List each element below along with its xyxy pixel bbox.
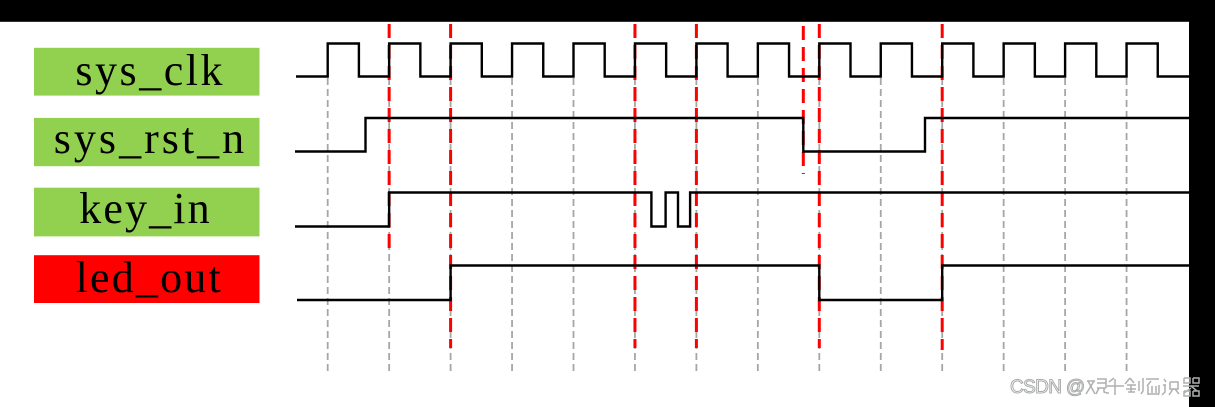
red marker line 1 at key_in rise bbox=[388, 24, 391, 252]
signal label box sys_clk bbox=[34, 46, 260, 96]
char qi bbox=[1183, 378, 1199, 396]
char shi bbox=[1162, 379, 1179, 395]
char er bbox=[1146, 379, 1159, 395]
waveform sys_rst_n bbox=[295, 118, 1189, 152]
char qian bbox=[1107, 378, 1124, 395]
gray grid dashed lines k0-k13 bbox=[328, 78, 1127, 372]
svg-text:led_out: led_out bbox=[76, 253, 221, 302]
red marker line 3 bbox=[633, 24, 636, 348]
char jian bbox=[1125, 378, 1143, 394]
red marker line 6 at led_out fall bbox=[818, 24, 821, 348]
signal label box key_in bbox=[34, 184, 260, 237]
char guan bbox=[1086, 379, 1109, 394]
waveform sys_clk bbox=[296, 44, 1189, 77]
waveform led_out bbox=[297, 266, 1189, 301]
right black bar bbox=[1189, 0, 1215, 407]
watermark CJK characters bbox=[1086, 378, 1199, 396]
red marker line 2 at led_out rise bbox=[449, 24, 452, 348]
svg-text:CSDN @: CSDN @ bbox=[1010, 377, 1085, 398]
signal label box sys_rst_n bbox=[34, 114, 260, 166]
svg-text:sys_rst_n: sys_rst_n bbox=[54, 114, 244, 163]
svg-text:key_in: key_in bbox=[79, 184, 209, 233]
svg-text:sys_clk: sys_clk bbox=[75, 46, 222, 95]
red marker line 4 bbox=[695, 24, 698, 348]
top black bar bbox=[0, 0, 1215, 22]
red marker line 7 at led_out rise 2 bbox=[941, 24, 944, 350]
red marker line 5 short at sys_rst_n fall bbox=[802, 26, 805, 174]
signal label box led_out bbox=[34, 253, 260, 303]
waveform key_in bbox=[295, 193, 1189, 227]
